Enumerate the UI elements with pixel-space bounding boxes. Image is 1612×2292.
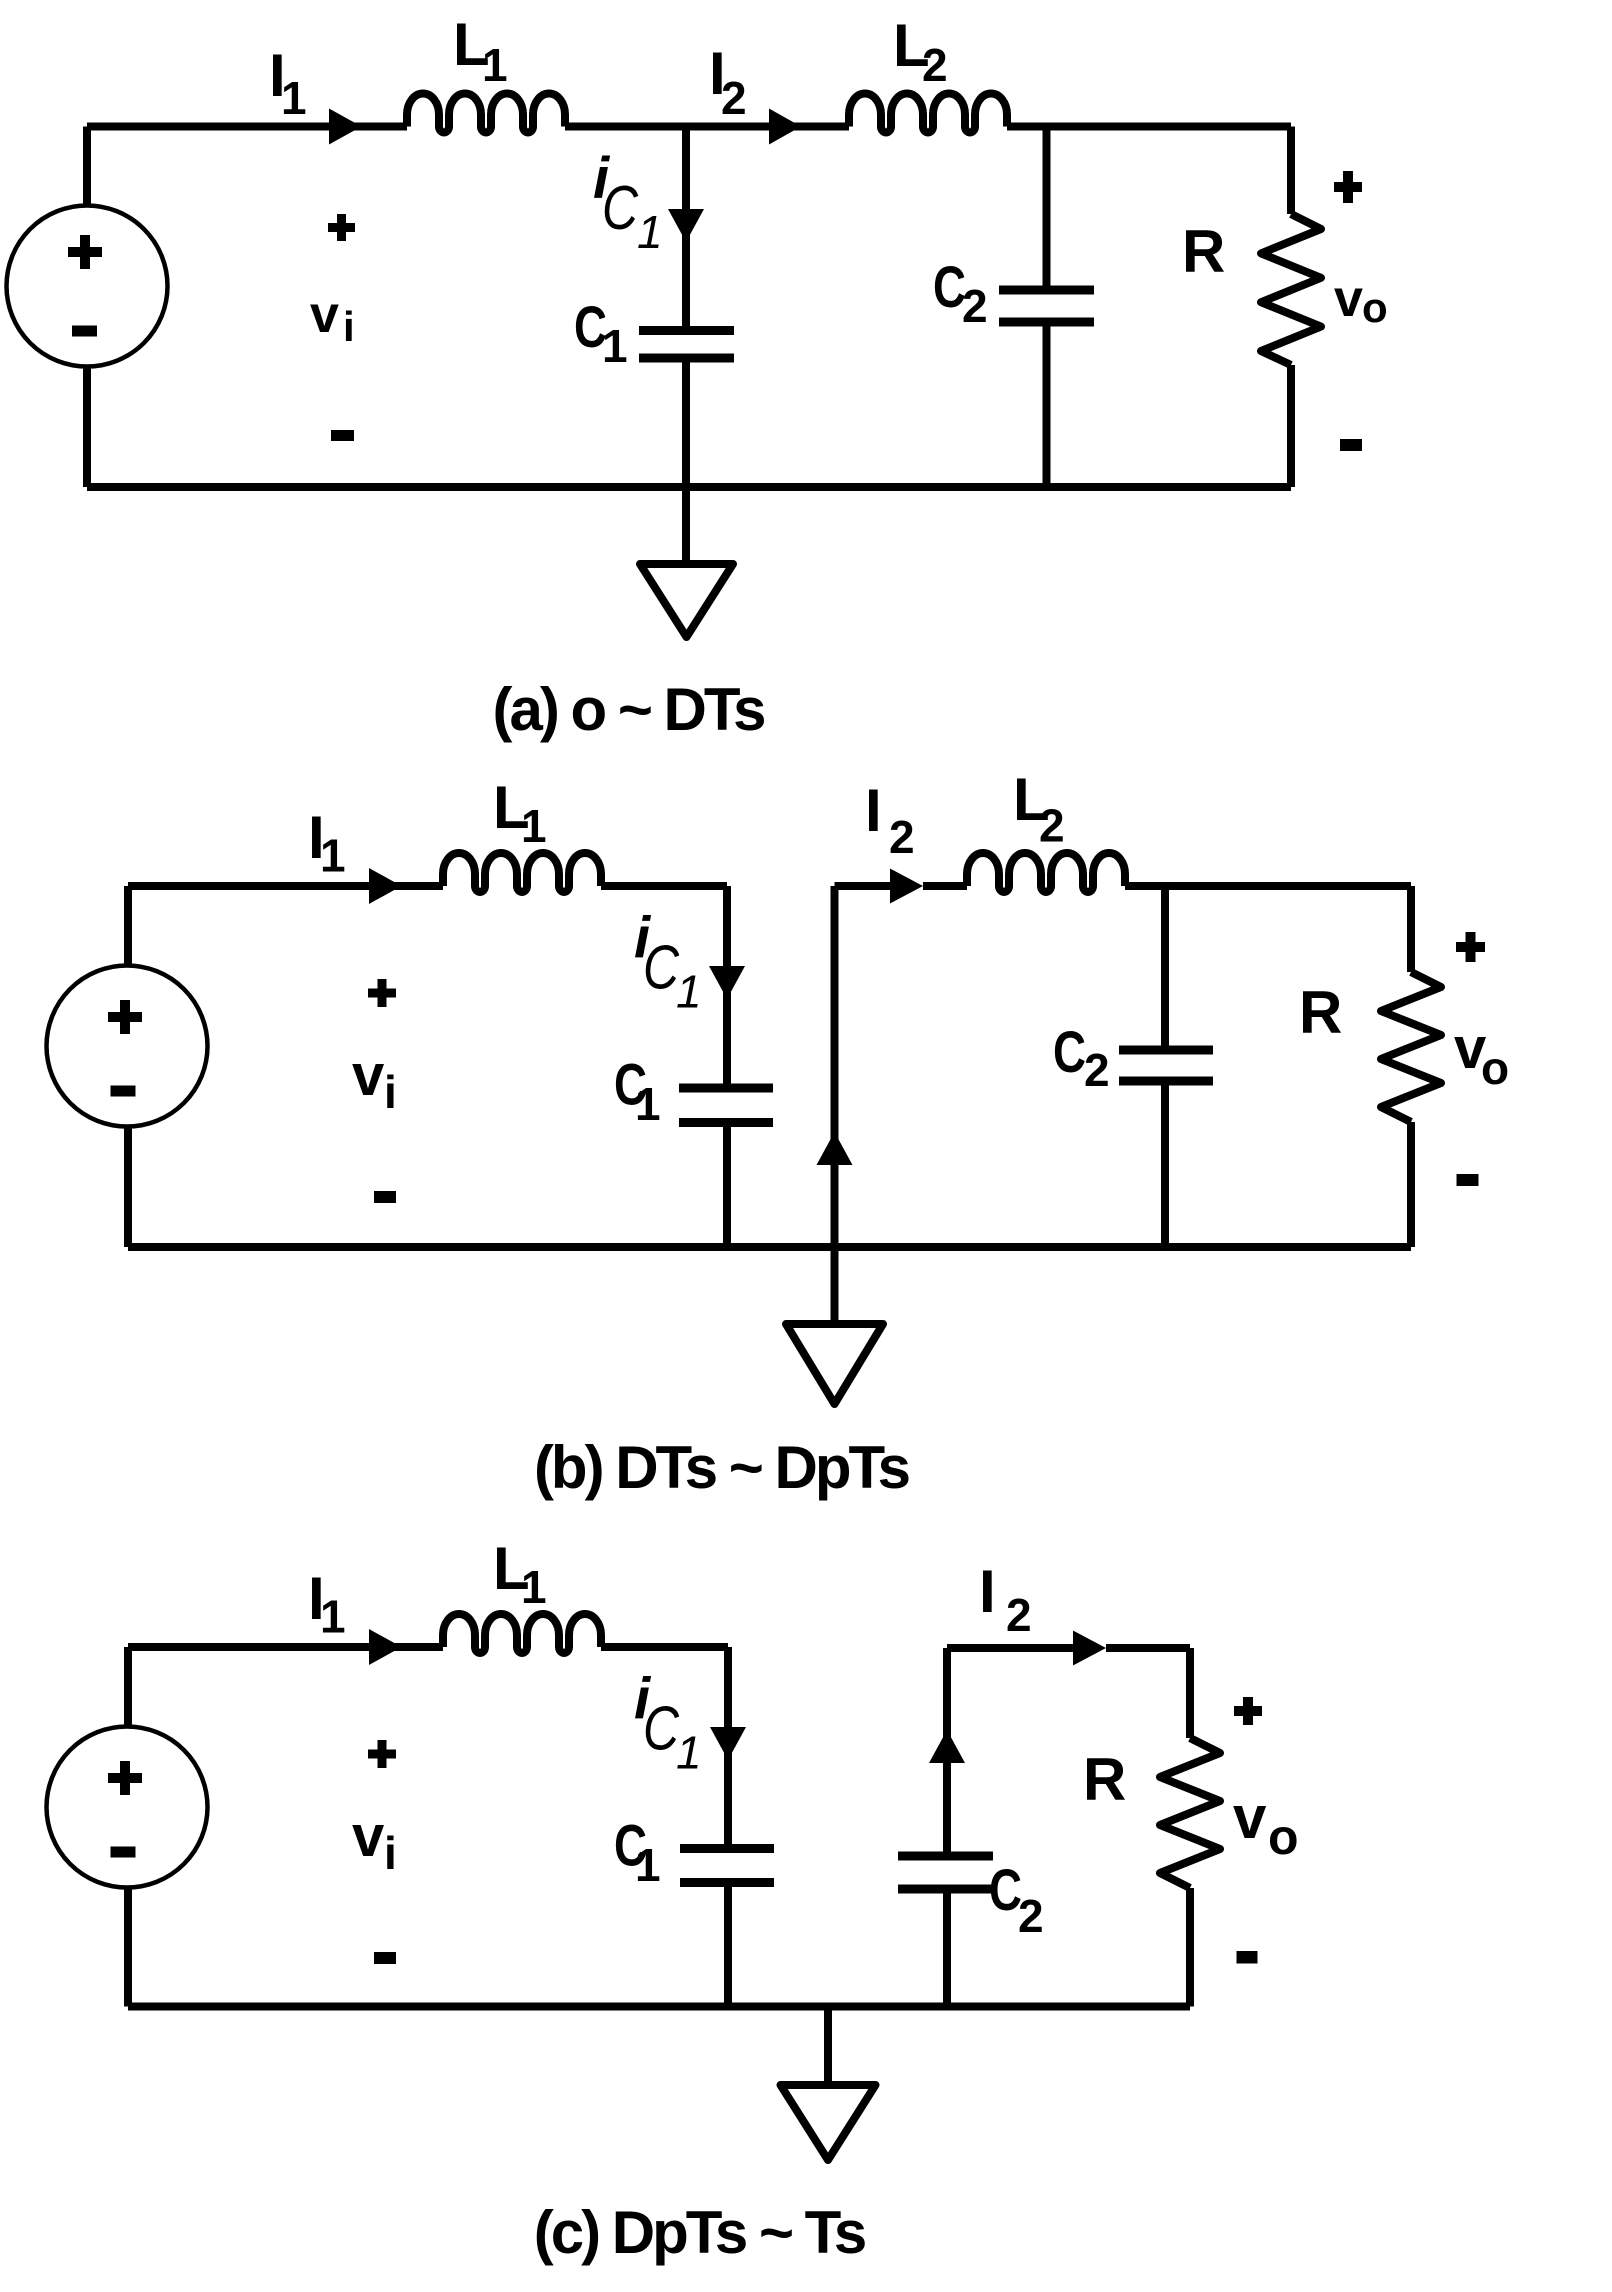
plus sign mid column: [328, 214, 355, 241]
svg-text:R: R: [1083, 1746, 1126, 1813]
inductor L1: [443, 1614, 601, 1653]
wire I2 top horizontal: [947, 1644, 1073, 1652]
plus sign mid column: [368, 979, 396, 1007]
svg-text:1: 1: [320, 1591, 346, 1643]
wire C1 branch upper: [724, 1647, 732, 1849]
svg-text:1: 1: [635, 1839, 661, 1891]
ground: [781, 2085, 876, 2160]
svg-text:i: i: [384, 1827, 397, 1879]
svg-text:I: I: [865, 777, 882, 844]
wire I2 from arrow to corner: [1106, 1644, 1190, 1652]
svg-text:1: 1: [602, 320, 628, 372]
wire top-left from source to L1: [87, 123, 407, 131]
arrow I2 right: [1073, 1631, 1106, 1666]
voltage source vi circle: [7, 206, 168, 367]
wire C1 branch upper: [723, 886, 731, 1088]
minus sign mid column: [374, 1952, 396, 1964]
wire C1 branch lower: [723, 1123, 731, 1248]
svg-text:2: 2: [889, 811, 915, 863]
arrow I2: [769, 109, 801, 145]
resistor R: [1160, 1738, 1220, 1888]
wire bottom: [128, 2003, 1190, 2011]
capacitor C2 plates: [999, 290, 1094, 322]
wire bottom: [128, 1243, 1411, 1251]
capacitor C2 plates: [898, 1856, 993, 1889]
wire from L1 to C1 corner: [601, 882, 727, 890]
svg-text:2: 2: [1018, 1890, 1044, 1942]
svg-text:1: 1: [676, 1727, 702, 1779]
node C2 branch upper wire: [1043, 127, 1051, 291]
wire C2 branch lower: [943, 1889, 951, 2007]
svg-text:I: I: [979, 1558, 996, 1625]
plus sign mid column: [368, 1740, 396, 1768]
inductor L1: [407, 94, 565, 133]
wire top-left from source to L1: [128, 1643, 443, 1651]
minus sign at vo: [1457, 1174, 1479, 1186]
wire right vertical above R: [1186, 1648, 1194, 1738]
wire between L1 and L2: [565, 123, 849, 131]
minus sign mid column: [374, 1191, 396, 1203]
svg-text:C: C: [602, 174, 639, 243]
inductor L2: [967, 853, 1125, 892]
wire right vertical above R: [1407, 886, 1415, 972]
svg-text:v: v: [352, 1043, 384, 1108]
wire from L2 to right corner: [1007, 123, 1291, 131]
wire left vertical above source: [124, 886, 132, 966]
svg-text:2: 2: [1006, 1589, 1032, 1641]
plus sign at vo: [1456, 932, 1485, 962]
svg-text:R: R: [1182, 218, 1225, 285]
svg-text:R: R: [1299, 979, 1342, 1046]
wire right vertical below R: [1186, 1888, 1194, 2007]
wire I2 branch vertical to ground: [831, 886, 839, 1324]
plus sign of source: [108, 1761, 142, 1795]
svg-text:i: i: [384, 1066, 397, 1118]
svg-text:2: 2: [962, 280, 988, 332]
arrow I1: [369, 1629, 402, 1665]
wire left vertical below source: [83, 367, 91, 488]
minus sign of source: [72, 326, 97, 337]
svg-text:1: 1: [482, 39, 508, 91]
svg-text:i: i: [343, 303, 355, 350]
voltage source vi circle: [47, 966, 208, 1127]
minus sign mid column: [331, 430, 354, 441]
svg-text:1: 1: [676, 966, 702, 1018]
wire from L1 to C1 corner: [601, 1643, 728, 1651]
minus sign of source: [111, 1847, 136, 1858]
svg-text:C: C: [643, 1695, 680, 1764]
svg-text:2: 2: [922, 39, 948, 91]
wire ground stem: [824, 2007, 832, 2086]
minus sign at vo: [1340, 439, 1362, 451]
svg-text:v: v: [352, 1804, 384, 1869]
wire C1 to bottom and ground stem: [682, 358, 690, 564]
wire bottom: [87, 483, 1291, 491]
svg-text:(b) DTs ~ DpTs: (b) DTs ~ DpTs: [534, 1434, 909, 1501]
capacitor C1 plates: [680, 1849, 774, 1883]
svg-text:o: o: [1362, 284, 1388, 331]
arrow I2 right: [890, 869, 923, 904]
minus sign at vo: [1237, 1951, 1258, 1964]
arrow iC1 down: [668, 209, 704, 242]
svg-text:1: 1: [637, 206, 663, 258]
inductor L1: [443, 853, 601, 892]
capacitor C1 plates: [639, 331, 734, 359]
svg-text:2: 2: [1084, 1044, 1110, 1096]
wire C2 branch upper: [1161, 886, 1169, 1050]
wire left vertical below source: [124, 1888, 132, 2007]
wire C2 branch lower: [1161, 1081, 1169, 1247]
svg-text:o: o: [1481, 1042, 1509, 1094]
svg-text:1: 1: [281, 72, 307, 124]
arrow I1: [369, 868, 402, 904]
svg-text:(a) o ~ DTs: (a) o ~ DTs: [493, 676, 765, 743]
svg-text:v: v: [1233, 1784, 1267, 1851]
plus sign at vo: [1234, 1697, 1262, 1725]
wire C2 branch upper: [943, 1648, 951, 1856]
capacitor C1 plates: [679, 1088, 773, 1123]
wire left vertical above source: [83, 127, 91, 207]
arrow iC1 down: [709, 966, 745, 999]
svg-text:1: 1: [320, 830, 346, 882]
wire from I2 arrow to L2: [923, 882, 967, 890]
wire from L2 to right corner: [1125, 882, 1411, 890]
plus sign at vo: [1334, 171, 1362, 203]
wire I2 horizontal: [835, 882, 891, 890]
plus sign of source: [68, 235, 102, 269]
capacitor C2 plates: [1119, 1050, 1213, 1081]
svg-text:2: 2: [721, 72, 747, 124]
svg-text:2: 2: [1039, 800, 1065, 852]
svg-text:C: C: [643, 934, 680, 1003]
wire right vertical above R: [1287, 127, 1295, 215]
wire C1 branch lower: [724, 1883, 732, 2007]
ground: [640, 564, 733, 637]
svg-text:(c) DpTs ~ Ts: (c) DpTs ~ Ts: [534, 2199, 865, 2266]
svg-text:1: 1: [521, 1561, 547, 1613]
wire left vertical below source: [124, 1127, 132, 1248]
arrow I1: [329, 109, 362, 145]
wire left vertical above source: [124, 1647, 132, 1727]
wire right vertical below R: [1287, 365, 1295, 487]
inductor L2: [849, 94, 1007, 133]
arrow iC1 down: [710, 1727, 746, 1760]
arrow I2 up: [817, 1132, 853, 1165]
wire C2 to bottom: [1043, 322, 1051, 487]
svg-text:1: 1: [521, 800, 547, 852]
resistor R: [1381, 972, 1441, 1122]
svg-text:v: v: [1334, 270, 1363, 328]
svg-text:C: C: [1053, 1020, 1086, 1085]
ground: [786, 1324, 883, 1404]
voltage source vi circle: [47, 1727, 208, 1888]
svg-text:1: 1: [635, 1078, 661, 1130]
wire right vertical below R: [1407, 1122, 1415, 1247]
node C1 branch upper wire: [682, 127, 690, 332]
wire top-left from source to L1: [128, 882, 443, 890]
svg-text:o: o: [1268, 1809, 1299, 1865]
svg-text:v: v: [310, 286, 339, 344]
arrow I2 up: [929, 1730, 965, 1763]
minus sign of source: [111, 1086, 136, 1097]
resistor R: [1261, 214, 1321, 365]
plus sign of source: [108, 1000, 142, 1034]
